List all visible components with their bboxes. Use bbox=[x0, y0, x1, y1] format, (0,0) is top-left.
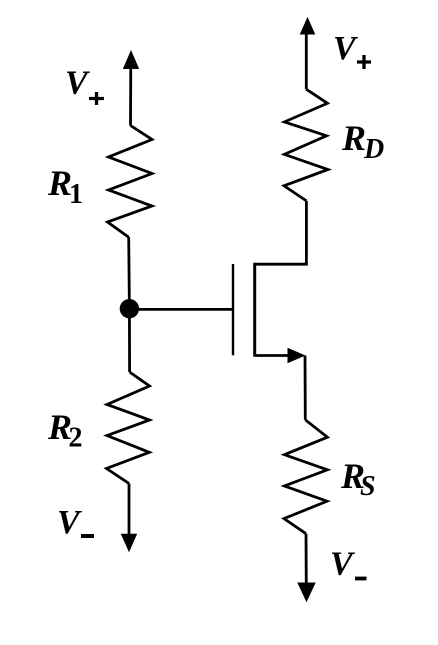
svg-text:D: D bbox=[363, 134, 384, 165]
svg-text:V: V bbox=[57, 504, 82, 541]
svg-text:V: V bbox=[330, 546, 355, 583]
svg-text:2: 2 bbox=[69, 423, 83, 454]
svg-text:V: V bbox=[333, 30, 358, 67]
svg-text:1: 1 bbox=[69, 179, 83, 210]
svg-text:S: S bbox=[360, 471, 376, 502]
svg-text:R: R bbox=[341, 118, 366, 158]
svg-text:V: V bbox=[65, 65, 90, 102]
